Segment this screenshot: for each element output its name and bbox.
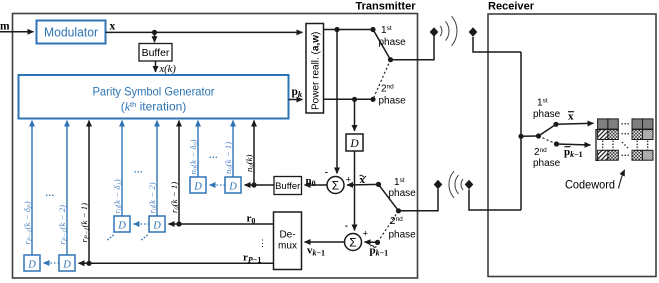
svg-text:x: x (568, 111, 574, 123)
switch SW1 dashed throw (373, 60, 391, 100)
codeword row2 parity cells (598, 130, 653, 140)
transmitter outer box (13, 14, 418, 279)
svg-text:rP−1(k − δP): rP−1(k − δP) (22, 201, 34, 244)
delay D n0-2 (blue) (225, 177, 241, 193)
modulator U1 (37, 21, 106, 44)
svg-text:phase: phase (379, 96, 407, 107)
switch SW1 solid throw (373, 30, 391, 60)
wire Power realloc to 1st phase contact (324, 29, 374, 31)
svg-text:r0(k − δ1): r0(k − δ1) (112, 179, 124, 213)
delay D rP-1 (blue) (24, 255, 40, 271)
svg-text:phase: phase (389, 230, 417, 241)
switch SW1 2nd phase contact (370, 97, 375, 102)
wire junction B down to delay D (354, 99, 356, 131)
summer S1 (327, 177, 344, 194)
svg-text:1st: 1st (381, 25, 392, 36)
svg-text:Buffer: Buffer (275, 181, 300, 192)
switch SW2 1st phase contact (376, 182, 381, 187)
svg-text:n0(k − δ0): n0(k − δ0) (188, 139, 200, 174)
switch SW1 pole (388, 57, 393, 62)
svg-text:r0: r0 (247, 213, 256, 226)
svg-text:···: ··· (134, 167, 143, 177)
wire S2 to De-mux (v) (305, 241, 345, 243)
svg-text:Power reall. (a,w): Power reall. (a,w) (310, 32, 321, 110)
buffer (n0, lower) (274, 177, 302, 195)
svg-text:2nd: 2nd (390, 216, 403, 227)
svg-text:Receiver: Receiver (488, 1, 535, 13)
codeword column dots (602, 141, 649, 151)
wire S1 to Buffer2 (n0) (305, 184, 328, 186)
radio waves bottom (449, 171, 463, 198)
wire antenna AR2 to rx bus (469, 190, 521, 211)
svg-text:1st: 1st (537, 97, 548, 108)
svg-text:⋮: ⋮ (258, 238, 267, 248)
svg-text:phase: phase (379, 37, 407, 48)
svg-text:Transmitter: Transmitter (356, 1, 417, 13)
codeword row gap dots (621, 123, 629, 156)
svg-text:Buffer: Buffer (142, 47, 170, 59)
codeword row1 systematic cells (598, 119, 653, 129)
switch SW2 solid throw (379, 184, 399, 210)
wire xtilde from SW2 1st contact to S1 (347, 183, 379, 186)
junction rP-1 (86, 261, 91, 266)
delay D (black) (346, 134, 363, 151)
switch SW2 2nd phase contact (375, 240, 380, 245)
svg-text:phase: phase (533, 158, 561, 169)
wire SW1 pole to antenna AT1 (391, 36, 435, 60)
codeword row3 parity cells (598, 150, 653, 160)
wire r0(k-1) up to parity generator (178, 121, 180, 225)
svg-text:mux: mux (278, 241, 297, 252)
delay D r0-1 (blue) (114, 216, 130, 232)
svg-text:phase: phase (389, 188, 417, 199)
wire rP-1(k-1) up to parity generator (88, 121, 90, 264)
wire n0(k-d0) up to parity generator (197, 121, 199, 178)
delay D n0-1 (blue) (190, 177, 206, 193)
switch SW3 dashed throw (539, 136, 557, 144)
wire r0(k-d1) up to parity generator (121, 121, 123, 217)
svg-text:rP−1: rP−1 (243, 252, 261, 265)
svg-text:r0(k − 1): r0(k − 1) (169, 182, 181, 213)
svg-text:phase: phase (533, 109, 561, 120)
summer S2 (345, 234, 362, 251)
svg-text:D: D (349, 138, 359, 150)
svg-text:D: D (152, 221, 161, 232)
antenna AT2 (tx bottom) (434, 180, 443, 190)
antenna AR1 (rx top) (469, 27, 478, 37)
svg-text:rP−1(k − 2): rP−1(k − 2) (57, 205, 69, 245)
svg-text:D: D (117, 221, 126, 232)
wire pbar to codeword bracket (557, 144, 591, 145)
receiver outer box (488, 14, 656, 277)
wire n0(k-1) up to parity generator (232, 121, 234, 178)
svg-text:-: - (345, 220, 349, 232)
dashed wire between r0 delays (134, 223, 150, 225)
svg-text:n0: n0 (306, 175, 316, 188)
svg-text:D: D (62, 260, 71, 271)
svg-text:m: m (0, 21, 10, 33)
junction n0 (251, 182, 256, 187)
svg-text:···: ··· (46, 191, 55, 201)
wire delay D down to summer S2 (354, 151, 356, 231)
svg-text:n0(k): n0(k) (244, 155, 256, 172)
switch SW3 2nd phase contact (554, 141, 559, 146)
junction A (334, 27, 339, 32)
wire Parity generator to Power realloc (289, 99, 303, 101)
wire m to Modulator (0, 31, 34, 33)
svg-text:+: + (363, 229, 369, 240)
svg-text:D: D (228, 182, 237, 193)
junction rx bus pole (518, 134, 523, 139)
continuation dots below r0 chain (107, 235, 114, 241)
buffer (top) (139, 44, 172, 62)
switch SW3 1st phase contact (553, 122, 558, 127)
delay D rP-2 (blue) (59, 255, 75, 271)
svg-text:pk−1: pk−1 (564, 146, 583, 159)
antenna AR2 (rx bottom) (465, 180, 474, 190)
svg-text:1st: 1st (394, 177, 405, 188)
junction r0 (176, 221, 181, 226)
switch SW2 dashed throw (378, 211, 399, 243)
wire antenna AR1 to rx bus (473, 37, 521, 52)
wire xbar to codeword (556, 123, 594, 124)
svg-text:rP−1(k − 1): rP−1(k − 1) (79, 203, 91, 243)
svg-text:+: + (346, 175, 352, 186)
svg-text:n0(k − 1): n0(k − 1) (223, 142, 235, 174)
dashed wire between rP delays (44, 262, 60, 264)
dashed wire between n0 delays (210, 184, 226, 186)
wire Buffer to Parity generator (155, 61, 157, 72)
svg-text:2nd: 2nd (534, 147, 547, 158)
codeword pointer arrow (619, 170, 625, 189)
wire rP-1(k-dP) up to parity generator (31, 121, 33, 256)
wire Modulator to Power realloc (106, 31, 303, 33)
svg-text:···: ··· (209, 153, 218, 163)
svg-text:x(k): x(k) (159, 64, 177, 75)
antenna AT1 (tx top) (430, 27, 439, 37)
svg-text:D: D (193, 182, 202, 193)
svg-text:pk: pk (292, 86, 303, 99)
switch SW3 solid throw (539, 124, 557, 136)
wire r0 from De-mux to chain (169, 223, 274, 225)
radio waves top (440, 16, 457, 46)
switch SW3 pole (536, 133, 541, 138)
junction B (352, 97, 357, 102)
codeword diagonal dots (622, 142, 629, 149)
delay D r0-2 (blue) (149, 216, 165, 232)
wire rP-1 from De-mux to chain (79, 262, 274, 264)
wire bus to SW3 pole (521, 135, 539, 137)
svg-text:D: D (27, 260, 36, 271)
svg-text:-: - (325, 167, 329, 179)
wire ptilde from SW2 2nd contact to S2 (365, 241, 378, 243)
wire junction to Buffer (154, 32, 156, 42)
wire Power realloc to 2nd phase contact (324, 98, 374, 100)
wire SW2 pole to antenna AT2 (399, 189, 439, 211)
svg-text:vk−1: vk−1 (307, 245, 325, 258)
svg-text:De-: De- (279, 230, 295, 241)
svg-text:2nd: 2nd (381, 83, 394, 94)
switch SW2 pole (396, 208, 401, 213)
power reallocation block U3 (306, 24, 324, 114)
de-mux U4 (274, 212, 302, 270)
svg-text:x: x (110, 20, 116, 32)
svg-text:r0(k − 2): r0(k − 2) (147, 182, 159, 213)
svg-text:Parity Symbol Generator: Parity Symbol Generator (93, 85, 215, 99)
svg-text:Σ: Σ (349, 236, 356, 250)
svg-text:Modulator: Modulator (44, 25, 99, 40)
wire Buffer2 to n0 chain (245, 184, 275, 186)
parity symbol generator U2 (19, 75, 289, 119)
wire r0(k-2) up to parity generator (156, 121, 158, 217)
switch SW1 1st phase contact (370, 27, 375, 32)
junction on x wire (152, 30, 157, 35)
svg-text:Codeword: Codeword (565, 178, 615, 192)
codeword bracket (596, 130, 599, 161)
wire junction A down to summer S1 (336, 30, 338, 174)
wire rP-1(k-2) up to parity generator (66, 121, 68, 256)
svg-text:Σ: Σ (332, 179, 339, 193)
svg-text:pk−1: pk−1 (370, 245, 389, 258)
wire n0(k) up to parity generator (253, 121, 255, 186)
rx bus wire (520, 52, 522, 210)
